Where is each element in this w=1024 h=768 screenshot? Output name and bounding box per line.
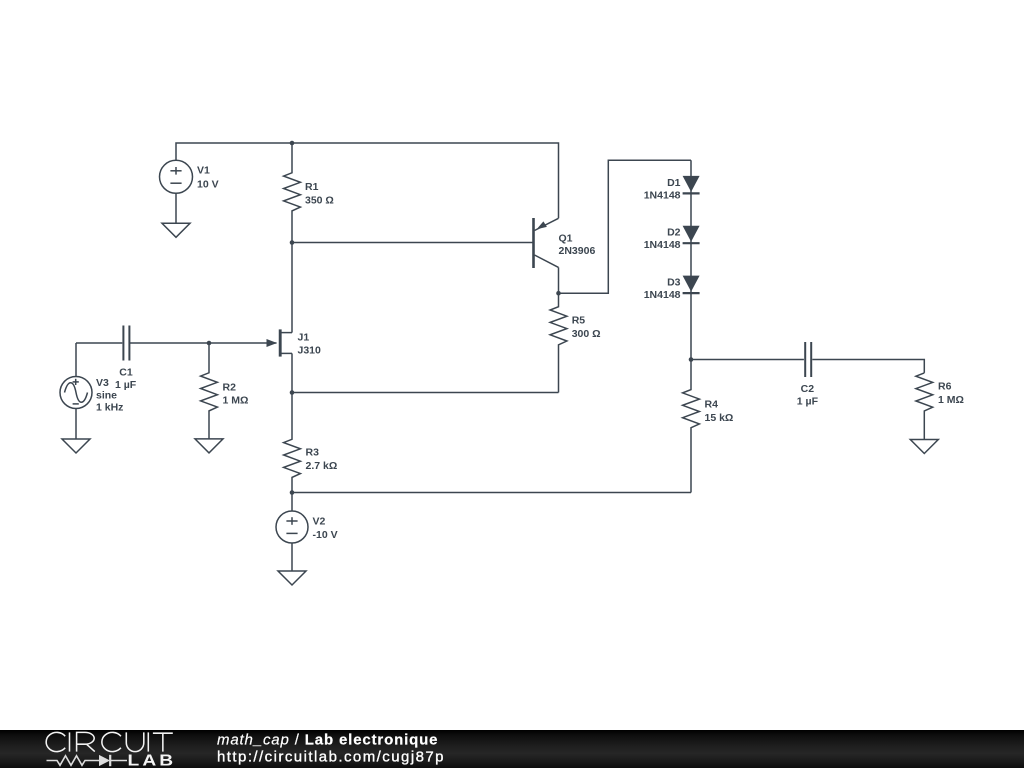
svg-text:math_cap / Lab electronique: math_cap / Lab electronique [217, 732, 438, 749]
svg-text:LAB: LAB [128, 751, 177, 768]
svg-text:http://circuitlab.com/cugj87p: http://circuitlab.com/cugj87p [217, 749, 445, 766]
